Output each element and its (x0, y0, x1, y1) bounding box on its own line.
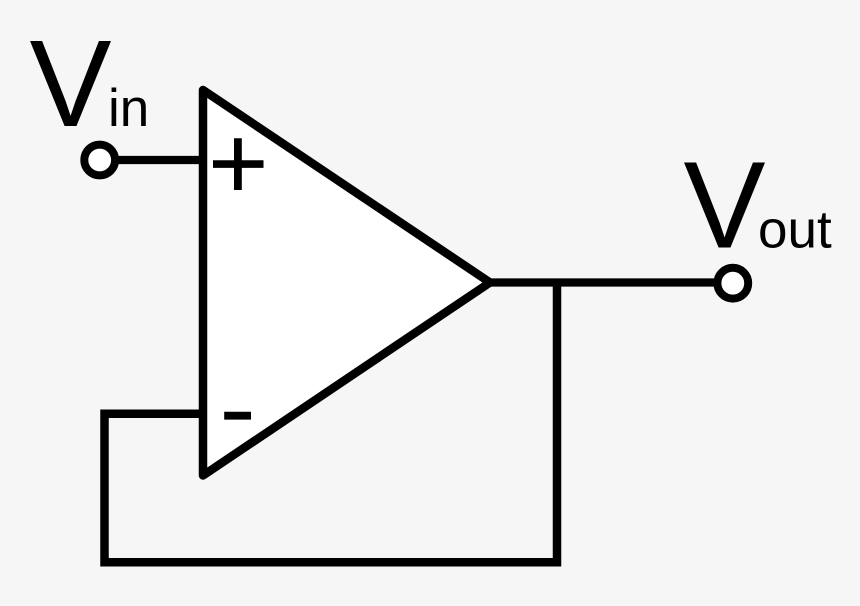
node: Vin input terminal circle (84, 145, 115, 176)
op-amp U1 triangle body (203, 90, 490, 476)
op-amp minus (-) inverting input marker (224, 412, 251, 420)
svg-text:in: in (108, 79, 149, 138)
svg-text:out: out (758, 200, 832, 259)
svg-text:V: V (684, 138, 766, 275)
wire: Vin terminal to non-inverting input (100, 156, 205, 164)
wire: feedback loop (inverting input, down, across bottom, up to output) (105, 283, 558, 563)
svg-text:V: V (30, 16, 112, 153)
op-amp plus (+) non-inverting input marker (213, 138, 264, 190)
node: Vout output terminal circle (717, 268, 748, 299)
wire: output to Vout terminal (490, 278, 722, 286)
